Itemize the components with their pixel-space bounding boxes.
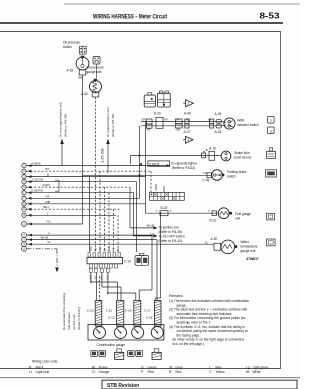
combination gauge box <box>88 325 164 341</box>
wire OD arrow <box>134 235 155 237</box>
wire row 7 (YR) <box>26 197 139 199</box>
hazard wire (arrow up) <box>107 144 109 174</box>
diagram border <box>0 32 281 369</box>
connector box (fuel left) <box>160 211 168 216</box>
svg-text:Y: Y <box>156 209 158 213</box>
ground icon (water) <box>267 239 276 246</box>
terminal circle 5 <box>22 185 26 189</box>
svg-text:C-12: C-12 <box>108 316 115 320</box>
connector A-20 box <box>156 117 163 128</box>
svg-text:Y:: Y: <box>209 370 212 374</box>
page top rule <box>64 3 300 5</box>
terminal circle 4 <box>22 180 26 184</box>
svg-text:To turn-signal flasher unit: To turn-signal flasher unit <box>58 102 62 137</box>
svg-text:gauge unit: gauge unit <box>241 249 256 253</box>
svg-text:Blue: Blue <box>216 365 223 369</box>
svg-text:2: 2 <box>270 119 272 123</box>
svg-text:temperature: temperature <box>241 244 258 248</box>
svg-text:(YB): (YB) <box>90 246 93 251</box>
svg-text:(Refer to P.8-48): (Refer to P.8-48) <box>63 114 67 137</box>
wire row 2 (BY) <box>26 170 151 172</box>
wire row 1 (0.85-B) <box>26 165 166 167</box>
svg-text:To hazard flasher unit: To hazard flasher unit <box>106 107 110 137</box>
terminal circle 7 <box>22 196 26 200</box>
fuel gauge unit B-21 <box>218 208 229 219</box>
svg-text:White: White <box>253 370 261 374</box>
svg-text:B-21: B-21 <box>210 218 217 222</box>
fuel pump icon b <box>154 349 159 352</box>
svg-text:YB: YB <box>94 276 97 280</box>
terminal circle 6 <box>22 191 26 195</box>
C-14 pin boxes bottom <box>90 264 93 268</box>
svg-text:37W617: 37W617 <box>246 257 259 261</box>
svg-text:WL/B: WL/B <box>41 236 49 240</box>
wire row 3 (B) <box>26 176 145 178</box>
svg-text:WIRING HARNESS – Meter Circuit: WIRING HARNESS – Meter Circuit <box>93 13 167 20</box>
terminal circle 2 <box>22 169 26 173</box>
wire row 9 ((RL)) <box>26 208 119 210</box>
svg-text:A-06: A-06 <box>184 112 191 116</box>
svg-text:0.85-RG: 0.85-RG <box>32 189 44 193</box>
svg-text:(Refer to P.3-67): (Refer to P.3-67) <box>77 307 81 330</box>
note to cigarette lighter <box>167 164 171 167</box>
svg-text:B-23: B-23 <box>161 206 168 210</box>
svg-text:control unit: control unit <box>72 315 76 330</box>
svg-text:4: 4 <box>187 138 189 142</box>
svg-text:C-49: C-49 <box>203 179 210 183</box>
revision box <box>102 380 297 389</box>
oil gauge pin box <box>92 92 99 97</box>
wire YG row <box>26 223 82 225</box>
terminal circle 1 <box>22 163 26 167</box>
svg-text:To ignition coil: To ignition coil <box>159 226 179 230</box>
connector bar C-14 <box>87 257 123 263</box>
svg-text:To OD OFF switch: To OD OFF switch <box>159 235 185 239</box>
svg-text:(Refer to P.8-43): (Refer to P.8-43) <box>159 239 182 243</box>
svg-text:A-52: A-52 <box>67 69 74 73</box>
svg-text:(YR): (YR) <box>108 246 111 251</box>
svg-text:A-04: A-04 <box>215 130 222 134</box>
svg-text:Parking brake: Parking brake <box>227 170 247 174</box>
svg-text:Orange: Orange <box>99 370 110 374</box>
ground mark 2 (right) <box>268 117 275 124</box>
terminal circle 3 <box>22 174 26 178</box>
indicator icon a <box>91 350 98 356</box>
ground icon (parking) <box>266 170 277 177</box>
connector icon oil pressure switch <box>79 46 86 54</box>
svg-text:RB: RB <box>46 200 50 204</box>
terminal circle 9 <box>22 207 26 211</box>
svg-text:R:: R: <box>169 370 172 374</box>
terminal circle 13 <box>22 237 27 242</box>
oil switch pin box <box>79 70 86 75</box>
wire right verticals to C-15/C-17 <box>151 235 153 290</box>
svg-text:1.25-GB: 1.25-GB <box>32 178 44 182</box>
ground triangle 2 <box>183 102 185 104</box>
svg-text:Light blue: Light blue <box>36 370 50 374</box>
svg-text:Pink: Pink <box>148 370 155 374</box>
svg-text:YL: YL <box>47 240 51 244</box>
svg-text:A-20: A-20 <box>154 112 161 116</box>
terminal circle 12 <box>22 233 27 238</box>
gauge dial 3 <box>132 327 144 339</box>
connector box (fuel right) <box>212 211 217 216</box>
svg-text:Water: Water <box>241 240 250 244</box>
svg-text:Brown: Brown <box>99 365 108 369</box>
svg-text:Gray: Gray <box>176 365 183 369</box>
indicator icon c <box>128 350 135 356</box>
C-14 pin boxes top <box>88 253 91 257</box>
svg-text:WL/B: WL/B <box>147 223 154 227</box>
svg-text:Y: Y <box>208 209 210 213</box>
svg-text:C-16: C-16 <box>125 309 132 313</box>
svg-text:L:: L: <box>209 365 212 369</box>
wire YG parking brake <box>82 174 212 176</box>
connector pair boxes (left) <box>147 119 153 124</box>
indicator icon b <box>99 350 106 356</box>
wire 4wd row2 <box>141 125 222 127</box>
connector face icon A-06 <box>158 93 171 107</box>
wire brake fluid row <box>131 155 222 157</box>
wire row 8 (RB) <box>26 203 145 205</box>
svg-text:Lg: Lg <box>151 231 155 235</box>
svg-text:Lg:: Lg: <box>246 365 251 369</box>
svg-text:P:: P: <box>141 370 144 374</box>
oil switch wire down <box>81 75 83 224</box>
svg-text:C-11: C-11 <box>106 309 113 313</box>
wire row 12 <box>26 234 152 236</box>
connector strip B-23 <box>150 192 185 200</box>
wire row 4 (1.25-GB) <box>26 181 136 183</box>
svg-text:Y: Y <box>170 209 172 213</box>
connector strip C-10 <box>95 301 102 327</box>
wire row 13 <box>26 239 157 241</box>
connector face icon A-20 <box>144 95 155 107</box>
wire mesh: solid verticals <box>89 177 91 252</box>
svg-text:A-03: A-03 <box>215 112 222 116</box>
svg-text:2: 2 <box>187 102 189 106</box>
wire mesh: dashed verticals to C-14 <box>99 171 101 252</box>
connector A-19 box <box>209 151 215 160</box>
svg-text:YR: YR <box>45 194 50 198</box>
terminal circle 10 <box>22 213 26 217</box>
svg-text:B: B <box>206 148 208 152</box>
terminal circle 8 <box>22 202 26 206</box>
svg-text:Combination gauge: Combination gauge <box>97 343 126 347</box>
svg-text:(RL): (RL) <box>43 205 49 209</box>
ground mark 3 (right) <box>268 127 275 134</box>
header rule <box>0 22 283 24</box>
svg-text:C-15: C-15 <box>146 316 153 320</box>
svg-text:STB Revision: STB Revision <box>107 383 139 389</box>
connector boxes A-03/A-04 <box>210 119 214 124</box>
connector box (brake) <box>202 153 206 158</box>
svg-text:C-14: C-14 <box>124 259 131 263</box>
svg-text:1.25-GB: 1.25-GB <box>99 148 104 163</box>
ground icon (brake) <box>269 148 272 151</box>
connector box (water) <box>214 243 221 250</box>
svg-text:W:: W: <box>246 370 250 374</box>
ground triangle 4 <box>183 139 185 141</box>
svg-text:Light green: Light green <box>253 365 269 369</box>
svg-text:Remarks: Remarks <box>169 294 183 298</box>
svg-text:level sensor: level sensor <box>235 155 253 159</box>
svg-text:4WD: 4WD <box>237 119 245 123</box>
terminal circle 11 <box>22 222 27 227</box>
svg-text:Fuel gauge: Fuel gauge <box>235 212 251 216</box>
svg-text:switch: switch <box>227 174 236 178</box>
terminal circle 14 <box>22 242 27 247</box>
svg-text:YR: YR <box>112 248 115 252</box>
brake fluid level sensor <box>221 151 231 161</box>
label box 0.85-B <box>148 161 170 166</box>
wire icon to gauge <box>95 64 97 78</box>
ground icon (fuel) <box>267 213 275 220</box>
wire row 15 <box>26 248 57 250</box>
svg-text:(GW): (GW) <box>43 183 50 187</box>
svg-text:(Refer to P.8-48): (Refer to P.8-48) <box>111 114 115 137</box>
svg-text:C-10: C-10 <box>87 309 94 313</box>
svg-text:A-07: A-07 <box>184 130 191 134</box>
connector strip C-17/C-15 <box>154 301 161 327</box>
svg-text:indicator switch: indicator switch <box>237 123 259 127</box>
wire row 10 (Y) <box>26 214 116 216</box>
water temperature gauge unit A-50 <box>221 240 235 254</box>
svg-text:To automatic free-wheeling: To automatic free-wheeling <box>62 293 66 330</box>
gauge dial 2 <box>115 327 127 339</box>
svg-text:Green: Green <box>148 365 157 369</box>
wire row 5 ((GW)) <box>26 186 130 188</box>
wire loop bracket <box>58 180 60 191</box>
svg-text:YB: YB <box>94 248 97 252</box>
wire C-14 to gauge connectors <box>90 273 92 283</box>
svg-text:0.85-B: 0.85-B <box>32 162 41 166</box>
wire 4wd row1 <box>141 121 222 123</box>
svg-text:Yellow: Yellow <box>216 370 226 374</box>
oil gauge dashed wire down <box>95 97 97 252</box>
parking brake switch <box>212 170 223 181</box>
wire fuel gauge Y <box>146 212 219 214</box>
svg-text:BY: BY <box>46 167 50 171</box>
svg-text:Gr:: Gr: <box>169 365 174 369</box>
svg-text:G:: G: <box>141 365 144 369</box>
gauge dial 1 <box>94 327 106 339</box>
svg-text:Brake fluid: Brake fluid <box>235 151 250 155</box>
connector box C-49 <box>207 173 211 178</box>
svg-text:Black: Black <box>36 365 44 369</box>
oil pressure switch A-52 <box>76 57 89 70</box>
gauge dial 4 <box>151 327 163 339</box>
svg-text:Wiring color code: Wiring color code <box>32 359 58 363</box>
svg-text:YG: YG <box>46 220 51 224</box>
wire row 14 <box>26 243 214 245</box>
free-wheeling dash-dot arrow <box>56 249 58 269</box>
svg-text:3: 3 <box>270 129 272 133</box>
svg-text:C-17: C-17 <box>144 309 151 313</box>
indicator icon d <box>136 350 143 356</box>
wire row 6 (0.85-RG) <box>26 192 133 194</box>
svg-text:gauge unit: gauge unit <box>87 70 102 74</box>
svg-text:(Refer to P.8-36): (Refer to P.8-36) <box>159 230 182 234</box>
connector boxes A-06 <box>176 119 183 124</box>
svg-text:A-50: A-50 <box>211 237 218 241</box>
4wd indicator switch <box>224 118 235 129</box>
svg-text:A-19: A-19 <box>209 147 216 151</box>
svg-text:To cigarette lighter: To cigarette lighter <box>171 161 198 165</box>
svg-text:Br:: Br: <box>92 365 96 369</box>
svg-text:switch: switch <box>63 45 72 49</box>
oil pressure gauge unit A-52 <box>90 81 102 93</box>
connector icon oil pressure gauge <box>93 57 100 65</box>
footer rule <box>0 377 300 379</box>
svg-text:B:: B: <box>29 365 32 369</box>
wire 0.85-B cigarette feed <box>140 163 142 165</box>
turn-signal wire (arrow up) <box>61 144 63 166</box>
svg-text:(Y): (Y) <box>117 248 120 251</box>
fuel pump icon a <box>117 349 122 352</box>
svg-text:Y: Y <box>47 211 49 215</box>
svg-text:A-52: A-52 <box>81 92 88 96</box>
svg-text:8-53: 8-53 <box>260 11 281 20</box>
svg-text:(Refer to P.8-62): (Refer to P.8-62) <box>172 166 195 170</box>
svg-text:(BL): (BL) <box>99 247 102 252</box>
svg-text:unit: unit <box>235 217 240 221</box>
svg-text:Red: Red <box>176 370 182 374</box>
connector strip C-11/C-12 <box>117 301 124 327</box>
svg-text:L: L <box>49 231 51 235</box>
svg-text:YL: YL <box>205 241 209 245</box>
svg-text:to① on the left page.): to① on the left page.) <box>173 342 205 346</box>
wire ignition arrow <box>130 227 154 229</box>
svg-text:Ll:: Ll: <box>29 370 32 374</box>
connector face icon C-14 <box>135 256 149 266</box>
svg-text:O:: O: <box>92 370 95 374</box>
connector strip C-16 <box>134 301 141 327</box>
svg-text:hub indicator: hub indicator <box>67 312 71 330</box>
terminal circle 15 <box>22 246 27 251</box>
svg-text:B: B <box>47 173 49 177</box>
